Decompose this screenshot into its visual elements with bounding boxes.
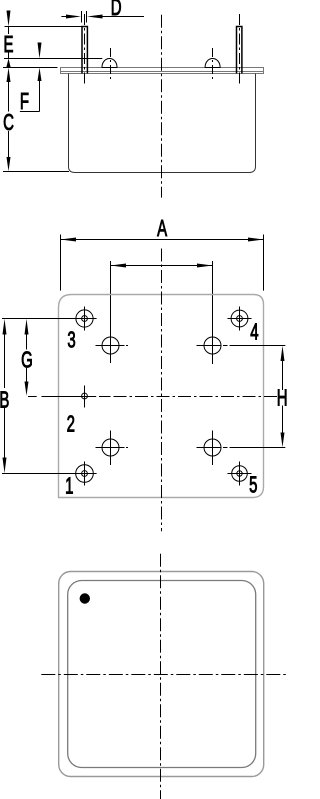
svg-text:3: 3 bbox=[67, 327, 75, 353]
pin circle top-left bbox=[96, 329, 129, 364]
dimension B extension bottom bbox=[2, 473, 97, 475]
svg-text:2: 2 bbox=[67, 411, 75, 437]
dimension H extension top bbox=[230, 345, 286, 347]
pin span dimension extension left bbox=[110, 261, 112, 330]
top view package outline bbox=[59, 295, 264, 498]
right pin center line bbox=[239, 14, 241, 84]
hole 1 bbox=[72, 462, 97, 486]
bottom view horizontal center line bbox=[41, 674, 286, 676]
svg-text:5: 5 bbox=[249, 472, 257, 498]
bottom view outer outline bbox=[59, 572, 264, 777]
dimension H bbox=[281, 346, 285, 448]
svg-text:F: F bbox=[20, 89, 29, 115]
extension line body bottom (C) bbox=[3, 171, 69, 173]
svg-text:B: B bbox=[0, 387, 9, 413]
svg-text:C: C bbox=[3, 110, 14, 136]
dimension C bbox=[7, 68, 11, 172]
left pin center line bbox=[84, 14, 86, 84]
top view vertical center line bbox=[161, 249, 163, 532]
pin circle bottom-right bbox=[197, 431, 228, 466]
pin 4/5 (side view right lead) bbox=[237, 27, 242, 74]
dimension E bbox=[6, 11, 10, 68]
right dome center line bbox=[212, 48, 214, 82]
pin circle top-right bbox=[197, 329, 228, 365]
right dome (glass seal) bbox=[205, 59, 220, 68]
dimension A extension left bbox=[60, 235, 62, 291]
dimension B bbox=[3, 319, 7, 474]
dimension A extension right bbox=[263, 235, 265, 291]
package body (side view) bbox=[69, 74, 256, 173]
dimension G bbox=[25, 319, 29, 396]
bottom view vertical center line bbox=[160, 554, 162, 799]
dimension F bbox=[20, 43, 42, 112]
hole 5 bbox=[228, 462, 252, 486]
pin span dimension extension right bbox=[212, 261, 214, 330]
extension line flange top (F/C) bbox=[3, 67, 58, 69]
top view horizontal center line bbox=[28, 396, 278, 398]
svg-text:E: E bbox=[4, 32, 14, 58]
svg-text:1: 1 bbox=[65, 473, 73, 499]
pin 2 bbox=[82, 386, 88, 408]
svg-text:4: 4 bbox=[250, 319, 258, 345]
dimension D bbox=[61, 11, 144, 23]
bottom view inner outline bbox=[68, 581, 256, 768]
side view vertical center line bbox=[161, 15, 163, 198]
svg-text:H: H bbox=[277, 385, 287, 411]
left dome (glass seal) bbox=[102, 59, 117, 68]
hole 4 bbox=[228, 307, 252, 331]
svg-text:G: G bbox=[21, 347, 33, 373]
left dome center line bbox=[110, 48, 112, 82]
package flange (side view) bbox=[61, 68, 264, 74]
extension line dome top (E/F) bbox=[4, 58, 102, 60]
pin 1/3 (side view left lead) bbox=[82, 27, 87, 74]
hole 3 bbox=[72, 307, 97, 331]
pin circle bottom-left bbox=[96, 431, 129, 466]
dimension H extension bottom bbox=[230, 447, 286, 449]
dimension B extension top bbox=[2, 318, 97, 320]
svg-text:D: D bbox=[111, 0, 122, 21]
pin span dimension line bbox=[111, 264, 213, 268]
extension line pin top (E) bbox=[5, 26, 83, 28]
dimension A line bbox=[61, 238, 264, 242]
svg-text:A: A bbox=[157, 216, 168, 242]
orientation dot bbox=[80, 593, 90, 603]
